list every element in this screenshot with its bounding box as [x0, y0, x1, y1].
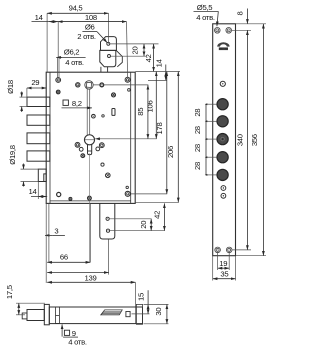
svg-text:28: 28: [193, 109, 202, 117]
bottom view right cap: [136, 304, 142, 324]
tab hole upper: [106, 217, 109, 220]
svg-text:Ø19,8: Ø19,8: [8, 145, 17, 164]
bottom view keyway slot: [101, 310, 122, 315]
dim 94,5: [47, 4, 108, 73]
label square 9 4 holes: [62, 324, 87, 346]
dim 106: [95, 72, 157, 139]
svg-text:14: 14: [35, 13, 44, 22]
svg-text:Ø18: Ø18: [6, 80, 15, 94]
dim 8 faceplate: [232, 9, 251, 31]
svg-text:106: 106: [145, 101, 154, 113]
svg-text:356: 356: [250, 134, 259, 146]
screw below top-left hole: [56, 90, 60, 94]
svg-text:29: 29: [31, 78, 39, 87]
svg-text:Ø6: Ø6: [85, 23, 95, 32]
dim 20 tab: [110, 219, 165, 231]
svg-text:2 отв.: 2 отв.: [77, 32, 96, 41]
dim 14 latch: [29, 182, 48, 200]
dim 42 bracket: [144, 44, 154, 72]
screw mid-left of slot: [92, 114, 96, 118]
dim 15 bottom view: [132, 290, 150, 314]
centerline below keyhole: [89, 154, 91, 263]
dim 30 bottom view: [144, 304, 169, 323]
faceplate small hole top: [220, 81, 225, 86]
faceplate view: [213, 24, 236, 256]
dim 356: [236, 24, 266, 256]
cylinder keyhole: [84, 135, 94, 155]
svg-text:28: 28: [193, 162, 202, 170]
label D6 2 holes: [77, 23, 107, 43]
svg-text:35: 35: [220, 269, 228, 278]
svg-text:17,5: 17,5: [5, 285, 14, 299]
top-right screw hole: [125, 77, 130, 82]
keyhole left small: [79, 147, 83, 151]
bottom view bolt: [27, 310, 44, 321]
label D18: [6, 80, 27, 112]
svg-text:МЕТТЭМ: МЕТТЭМ: [219, 49, 228, 51]
bottom view body: [49, 307, 142, 324]
handle follower with 8.2 square: [85, 81, 93, 89]
keyhole right small: [96, 147, 100, 151]
tiny hole bottom-right: [126, 186, 128, 188]
top-left screw hole: [56, 78, 61, 83]
dim chain 28: [193, 103, 216, 176]
screw lower mid: [106, 173, 111, 178]
svg-text:108: 108: [85, 13, 97, 22]
svg-text:19: 19: [219, 259, 227, 268]
dim 29 bolt: [27, 78, 47, 97]
dim 17,5: [5, 285, 45, 315]
svg-text:206: 206: [166, 146, 175, 158]
logo: [217, 42, 229, 51]
svg-text:8: 8: [236, 11, 245, 15]
label D5,5 4 holes: [194, 3, 219, 26]
dim 14 top-left: [35, 13, 59, 57]
lock body front view: [46, 72, 135, 203]
auxiliary latch: [38, 169, 46, 181]
bracket feet: [101, 67, 108, 72]
bottom-right ring hole: [125, 191, 130, 196]
svg-text:14: 14: [29, 187, 38, 196]
bottom-left ring hole: [57, 192, 61, 196]
dim 108: [32, 13, 128, 77]
faceplate top screw right: [226, 28, 232, 34]
svg-text:30: 30: [154, 308, 163, 316]
svg-text:4 отв.: 4 отв.: [68, 337, 87, 346]
svg-text:42: 42: [144, 54, 153, 62]
svg-text:28: 28: [193, 144, 202, 152]
svg-text:340: 340: [236, 134, 245, 146]
label D6,2 4 holes: [56, 48, 85, 78]
bottom view screw channel: [56, 307, 60, 323]
dim 340: [232, 30, 251, 250]
dim 66: [47, 252, 90, 262]
small hole below top-right: [128, 89, 131, 92]
faceplate bottom screw left: [215, 247, 221, 253]
bolt hole 4: [217, 152, 228, 163]
dim 206: [135, 72, 179, 203]
bottom view square hole: [126, 312, 130, 317]
svg-text:Ø5,5: Ø5,5: [197, 3, 212, 12]
bolt hole 5: [217, 169, 228, 180]
deadbolt 4: [27, 151, 50, 161]
faceplate bottom screw right: [226, 247, 232, 253]
dim 19: [218, 252, 230, 270]
faceplate small hole lower 1: [221, 186, 226, 191]
bolt hole 2: [217, 116, 228, 127]
deadbolt 3: [27, 133, 50, 144]
bottom view bolt nub: [22, 313, 27, 319]
dim 85: [93, 85, 148, 139]
faceplate top screw left: [215, 28, 221, 34]
svg-text:178: 178: [155, 123, 164, 135]
tab hole lower: [106, 229, 109, 232]
dim 14 top-right: [135, 58, 180, 80]
svg-text:4 отв.: 4 отв.: [196, 13, 215, 22]
strike bracket upper tab: [101, 37, 117, 51]
screw below keyhole: [81, 154, 85, 158]
bottom view faceplate section: [44, 304, 49, 324]
dim 20 bracket: [110, 44, 159, 56]
faceplate small hole lower 2: [221, 193, 226, 198]
circle right of follower: [100, 83, 104, 87]
dim 178: [131, 72, 167, 194]
svg-text:139: 139: [85, 273, 97, 282]
svg-text:8,2: 8,2: [72, 99, 82, 108]
keyhole left ring: [75, 142, 80, 147]
deadbolt 2: [27, 115, 50, 125]
svg-text:42: 42: [152, 211, 161, 219]
follower shaft lines: [87, 89, 90, 135]
dim 35: [213, 256, 236, 281]
bolt hole 3: [217, 134, 228, 145]
screw center-right: [112, 93, 116, 97]
bottom-left screw: [69, 197, 72, 200]
svg-text:4 отв.: 4 отв.: [65, 58, 84, 67]
lower fixing tab: [100, 203, 115, 239]
svg-text:94,5: 94,5: [69, 4, 83, 13]
bottom center screw: [88, 196, 92, 200]
tiny hole mid: [102, 115, 104, 117]
bracket hole upper: [107, 42, 110, 45]
svg-text:20: 20: [139, 221, 148, 229]
svg-text:66: 66: [60, 252, 68, 261]
vertical slot: [112, 109, 115, 116]
bracket hole lower: [108, 55, 111, 58]
svg-text:28: 28: [193, 126, 202, 134]
circle left of follower: [76, 83, 80, 87]
svg-text:15: 15: [136, 293, 145, 301]
label D19,8 with latch dim: [8, 145, 38, 186]
svg-text:85: 85: [136, 108, 145, 116]
deadbolt 1: [27, 97, 50, 106]
dim 42 tab: [152, 203, 164, 230]
dim 139 front: [46, 203, 135, 324]
svg-text:Ø6,2: Ø6,2: [64, 48, 79, 57]
bolt hole 1: [217, 99, 228, 110]
keyhole right ring: [99, 143, 104, 148]
bracket diagonal edge: [116, 51, 122, 67]
svg-text:20: 20: [131, 47, 140, 55]
small hole lower mid: [101, 163, 104, 166]
label 8.2 square: [62, 99, 93, 108]
label 3: [45, 227, 65, 236]
svg-text:14: 14: [155, 58, 164, 67]
svg-text:3: 3: [54, 227, 58, 236]
strike bracket lower tab: [100, 50, 116, 66]
